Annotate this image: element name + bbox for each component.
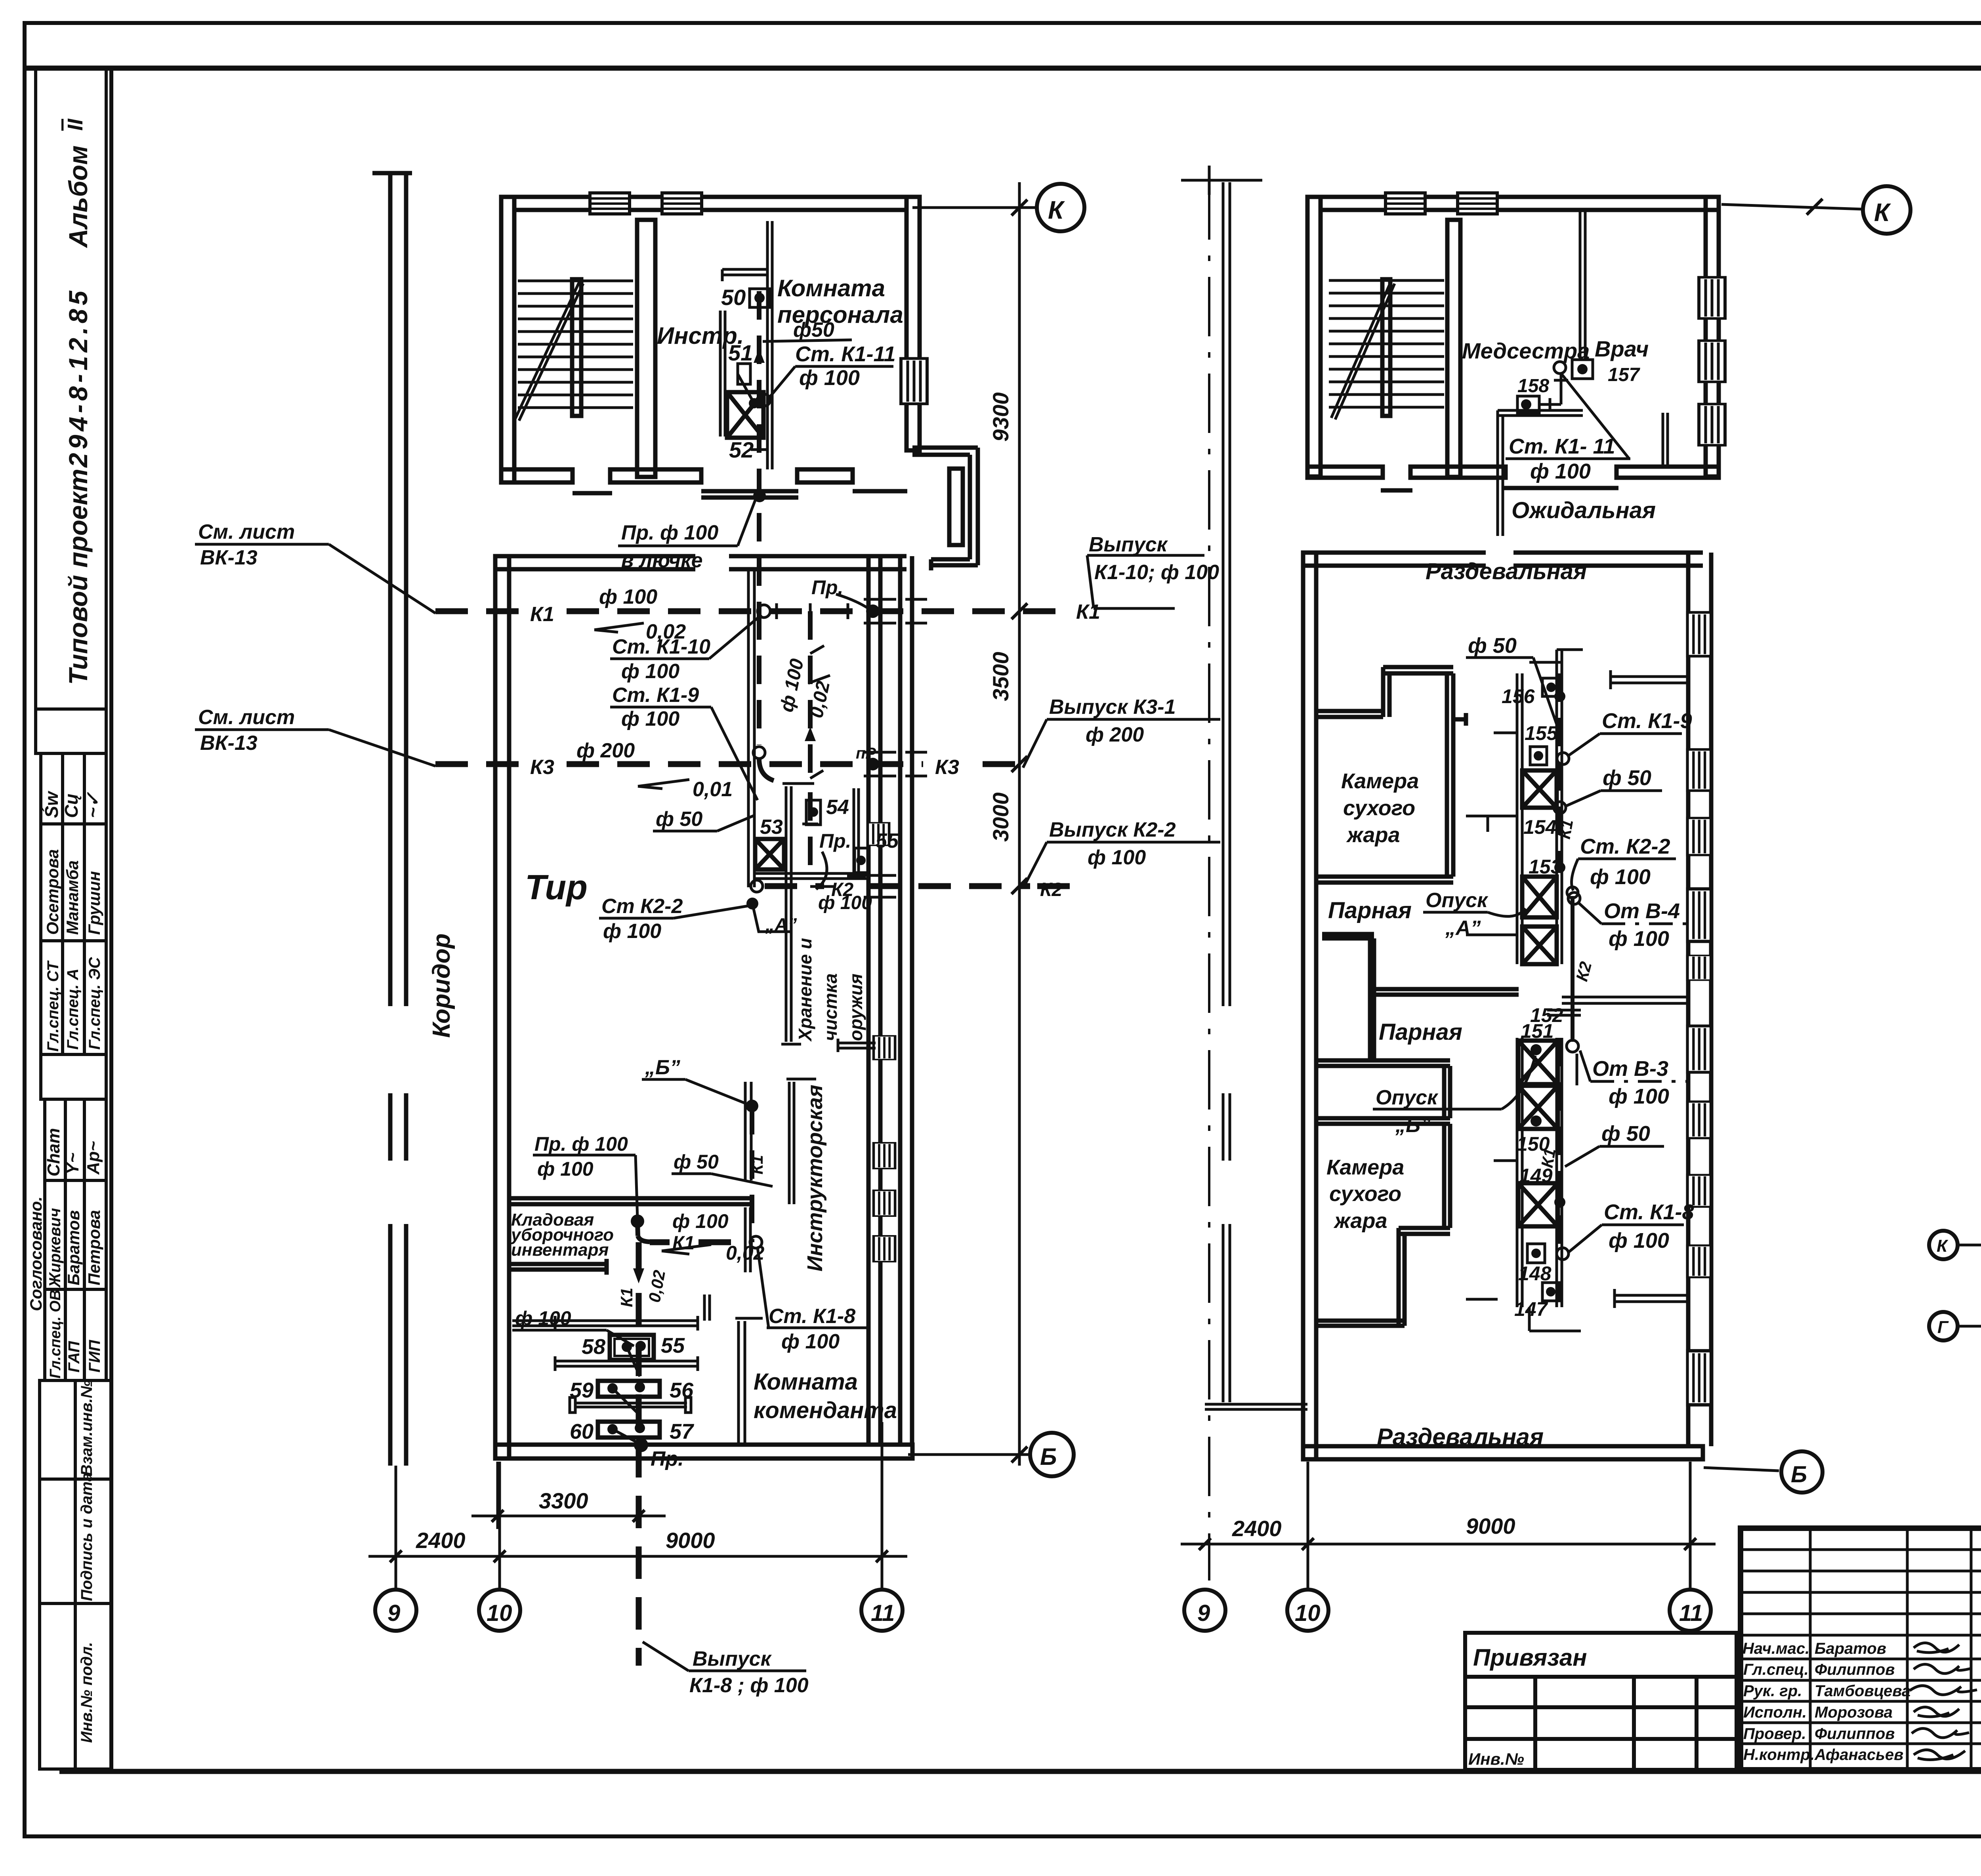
svg-text:153: 153 [1529,856,1562,878]
toilet area bottom [512,1316,763,1445]
stairwell [1447,220,1460,477]
outer walls [495,556,912,1458]
svg-text:Ожидальная: Ожидальная [1512,498,1656,523]
svg-text:Ст. К1-9: Ст. К1-9 [1602,709,1692,733]
svg-text:Опуск: Опуск [1376,1086,1439,1109]
svg-text:Камера: Камера [1341,769,1419,793]
svg-text:9300: 9300 [988,392,1013,442]
svg-text:Медсестра: Медсестра [1462,338,1590,363]
svg-text:Пр. ф 100: Пр. ф 100 [534,1133,628,1155]
right interior wall + exterior wall [868,556,912,1445]
svg-text:ф 50: ф 50 [1601,1122,1650,1146]
svg-text:См. лист: См. лист [198,520,295,543]
svg-text:ГИП: ГИП [86,1340,103,1373]
svg-text:II: II [63,118,87,131]
svg-text:ф 100: ф 100 [799,366,860,390]
svg-text:Исполн.: Исполн. [1743,1704,1807,1721]
svg-text:Раздевальная: Раздевальная [1426,559,1587,584]
svg-text:Ст. К1-8: Ст. К1-8 [1604,1200,1694,1224]
leader lines [1958,1206,1981,1438]
B axis bottom [908,1453,1030,1456]
svg-text:Św: Św [41,790,62,818]
svg-text:Парная: Парная [1328,898,1412,923]
svg-text:54: 54 [826,796,849,819]
svg-text:К2: К2 [1040,879,1063,900]
svg-text:Камера: Камера [1326,1155,1404,1179]
svg-text:9: 9 [387,1600,400,1626]
connection dots/circles [1554,691,1565,702]
svg-text:Рук. гр.: Рук. гр. [1743,1682,1802,1700]
svg-text:Ст К2-2: Ст К2-2 [601,895,683,918]
svg-text:60: 60 [570,1420,594,1443]
stairs [515,281,633,421]
svg-text:Подпись и дата: Подпись и дата [78,1473,95,1601]
svg-text:51: 51 [728,340,753,365]
svg-text:Привязан: Привязан [1473,1644,1587,1671]
svg-text:294-8-12.85: 294-8-12.85 [63,287,93,468]
door stubs inside [1466,662,1581,1299]
svg-text:156: 156 [1502,685,1535,707]
divider above toilets [704,1207,750,1321]
branch to K3 [757,611,761,745]
svg-text:пР: пР [856,745,876,762]
inner frame bottom [59,1769,1981,1774]
right wall niches [1699,277,1725,318]
svg-text:ф 100: ф 100 [621,707,679,730]
svg-text:См. лист: См. лист [198,706,295,729]
approval table (rotated) upper [36,709,106,1054]
svg-text:57: 57 [670,1420,695,1443]
corridor wall [1205,182,1307,1409]
svg-text:Филиппов: Филиппов [1815,1725,1895,1743]
standard attribute column [40,1380,111,1769]
svg-text:ф50: ф50 [793,318,834,341]
svg-text:56: 56 [670,1378,694,1402]
svg-text:59: 59 [570,1378,594,1402]
svg-text:ф 50: ф 50 [1603,766,1651,790]
title text box [36,68,106,709]
svg-text:Раздевальная: Раздевальная [1377,1424,1544,1450]
svg-text:Н.контр.: Н.контр. [1743,1746,1815,1764]
shaft column [1517,650,1583,1331]
svg-text:Гл.спец.: Гл.спец. [1743,1661,1809,1678]
svg-text:Пр.: Пр. [651,1447,684,1470]
svg-text:К1: К1 [617,1288,636,1307]
Кладовая storeroom [509,1198,751,1275]
svg-text:ф 100: ф 100 [781,1330,840,1353]
svg-text:„Б”: „Б” [645,1056,680,1079]
svg-text:Ст. К1-11: Ст. К1-11 [795,342,896,366]
svg-text:154: 154 [1523,816,1556,838]
riser branch vertical (54/55) [808,611,813,776]
left signature strip grid [1741,1528,1981,1770]
svg-text:Тир: Тир [525,867,588,907]
svg-text:~✓: ~✓ [82,792,103,818]
svg-text:149: 149 [1519,1165,1553,1187]
niche on right wall [901,358,927,404]
svg-text:Баратов: Баратов [64,1210,83,1285]
svg-text:Гл.спец. А: Гл.спец. А [64,969,82,1050]
svg-text:Типовой проект: Типовой проект [63,469,93,685]
axis 9 line [1208,180,1210,1580]
bottom wall [1307,467,1719,490]
corridor wall (axis 9-10) [372,173,412,1466]
svg-text:Ст. К1- 11: Ст. К1- 11 [1509,435,1615,458]
svg-text:58: 58 [582,1335,605,1359]
svg-text:ф 100: ф 100 [1609,927,1669,951]
dims [1181,1543,1716,1546]
svg-text:10: 10 [1295,1600,1321,1626]
svg-text:10: 10 [487,1600,512,1626]
svg-text:147: 147 [1514,1298,1548,1320]
fixtures [1572,360,1593,379]
svg-text:Филиппов: Филиппов [1815,1661,1895,1678]
svg-text:От В-4: От В-4 [1604,899,1680,923]
svg-text:Б: Б [1040,1443,1057,1470]
svg-text:сухого: сухого [1329,1182,1401,1206]
svg-text:ф 100: ф 100 [603,920,661,943]
svg-text:К3: К3 [935,756,959,779]
K1 main line [435,608,523,614]
svg-text:сухого: сухого [1343,796,1415,820]
left rows: role/name [1742,1640,1910,1764]
svg-text:ф 200: ф 200 [576,739,635,762]
svg-text:ф 100: ф 100 [537,1158,594,1180]
svg-text:Инструкторская: Инструкторская [803,1085,827,1272]
facade piers [874,1036,895,1060]
mid fixtures 53/54/55 [781,784,876,1052]
svg-text:К1-10; ф 100: К1-10; ф 100 [1094,561,1219,584]
svg-text:Провер.: Провер. [1743,1725,1806,1743]
svg-text:К1: К1 [530,603,554,626]
svg-text:К1: К1 [748,1155,766,1174]
dots on K1/K3 at wall [866,604,880,618]
fixtures room (Инстр.) [720,269,767,437]
svg-text:жара: жара [1333,1209,1387,1233]
main outline [1741,1528,1981,1770]
sink 51 [738,364,750,384]
small fixtures [1542,678,1560,696]
svg-text:9: 9 [1197,1600,1210,1626]
svg-text:К1: К1 [672,1233,695,1254]
bay at right [912,448,978,570]
svg-text:ф 100: ф 100 [621,660,679,683]
svg-text:От В-3: От В-3 [1592,1057,1668,1081]
svg-text:коменданта: коменданта [754,1397,897,1423]
small crosses on lines [777,603,848,887]
svg-text:Пр. ф 100: Пр. ф 100 [621,521,718,544]
svg-text:3300: 3300 [539,1488,588,1513]
svg-text:К: К [1937,1236,1949,1256]
svg-text:ф 100: ф 100 [515,1307,571,1329]
svg-text:Взам.инв.№: Взам.инв.№ [78,1380,95,1476]
shaft x-box [727,392,763,438]
svg-text:2400: 2400 [1232,1516,1282,1541]
B axis [1704,1468,1779,1471]
partitions to facade [1562,670,1687,1308]
squiggle signatures [1910,1643,1977,1760]
svg-text:Cham: Cham [44,1128,63,1176]
dim 3300 [496,1462,499,1529]
svg-text:ф 100: ф 100 [818,892,872,913]
svg-text:Грушин: Грушин [85,871,103,935]
svg-text:К1: К1 [1555,818,1577,841]
svg-text:9000: 9000 [1466,1514,1515,1539]
svg-text:Баратов: Баратов [1815,1640,1886,1657]
urinal boxes [598,1335,660,1438]
svg-text:50: 50 [721,285,746,310]
vertical dim line [1018,182,1021,1466]
svg-text:ф 200: ф 200 [1086,723,1144,746]
svg-text:К3: К3 [530,756,554,779]
svg-text:Осетрова: Осетрова [43,849,62,935]
wall window hatches [590,193,630,214]
svg-text:9000: 9000 [666,1528,715,1553]
svg-text:Афанасьев: Афанасьев [1814,1746,1903,1764]
riser line K1 dashed [1557,673,1562,867]
svg-text:ф 50: ф 50 [656,808,702,831]
svg-text:Соглосовано.: Соглосовано. [27,1196,45,1311]
svg-text:жара: жара [1346,823,1400,847]
svg-text:Гл.спец. СТ: Гл.спец. СТ [44,960,62,1052]
svg-text:К: К [1048,196,1065,224]
dim 2400 / 9000 [368,1555,907,1558]
svg-text:К1: К1 [1076,601,1100,623]
svg-text:3500: 3500 [988,652,1013,701]
svg-text:ф 100: ф 100 [1088,846,1146,869]
left annex (Привязан) [1465,1633,1737,1770]
svg-text:ф 100: ф 100 [1609,1229,1669,1253]
facade hatched band [1687,612,1711,656]
svg-text:148: 148 [1518,1262,1552,1285]
svg-text:55: 55 [661,1334,685,1357]
stair core right wall [637,220,655,477]
svg-text:11: 11 [871,1600,895,1626]
svg-text:Ст. К2-2: Ст. К2-2 [1580,835,1670,858]
Инструкторская partition [786,1079,816,1204]
axis extensions + circles [395,1466,397,1590]
svg-text:Выпуск: Выпуск [693,1647,772,1670]
K2 line [765,883,824,889]
thin wall of staff room [767,221,772,469]
K3 line [435,761,523,767]
svg-text:Парная: Парная [1379,1019,1462,1045]
lower sauna suite [1316,1060,1450,1326]
svg-text:Пр.: Пр. [819,830,851,852]
St K2-2 dot [751,880,763,892]
svg-text:оружия: оружия [845,974,866,1041]
svg-text:Комната: Комната [777,275,885,301]
bottom wall segments [501,469,907,498]
svg-text:Нач.мас.: Нач.мас. [1742,1640,1809,1657]
svg-text:Врач: Врач [1595,336,1649,361]
svg-text:ф 100: ф 100 [1590,865,1651,889]
svg-text:Комната: Комната [754,1369,858,1395]
svg-text:Морозова: Морозова [1815,1704,1893,1721]
svg-text:Опуск: Опуск [1426,889,1489,912]
svg-text:Тамбовцева: Тамбовцева [1815,1682,1910,1700]
svg-text:53: 53 [760,816,783,839]
svg-text:Коридор: Коридор [428,934,455,1038]
svg-text:150: 150 [1517,1133,1550,1155]
svg-text:3000: 3000 [988,792,1013,842]
svg-text:ВК-13: ВК-13 [200,732,258,755]
svg-text:2400: 2400 [416,1528,466,1553]
room partition lines bottom of shaft area [755,873,868,879]
svg-text:52: 52 [729,437,754,462]
svg-text:ВК-13: ВК-13 [200,546,258,569]
svg-text:157: 157 [1608,364,1640,385]
svg-text:Гл.спец. ОВ: Гл.спец. ОВ [47,1290,64,1378]
svg-text:Ст. К1-8: Ст. К1-8 [769,1305,855,1328]
svg-text:Инв.№: Инв.№ [1468,1750,1524,1768]
svg-text:0,01: 0,01 [693,778,733,801]
svg-text:Ст. К1-10: Ст. К1-10 [612,635,710,658]
svg-text:Инв.№ подл.: Инв.№ подл. [78,1642,95,1743]
svg-text:151: 151 [1521,1020,1554,1042]
svg-text:ф 100: ф 100 [672,1210,729,1232]
svg-text:11: 11 [1679,1600,1703,1626]
svg-text:Y~: Y~ [63,1153,82,1174]
svg-text:155: 155 [1525,722,1558,744]
svg-text:ф 100: ф 100 [1530,459,1591,483]
svg-text:К: К [1874,198,1891,227]
svg-text:Петрова: Петрова [85,1210,103,1285]
x-boxes upper [1522,770,1557,964]
svg-text:„Б”: „Б” [1395,1114,1431,1137]
riser K1 vertical dashed [757,291,761,611]
medical partitions [1498,210,1668,536]
svg-text:Гл.спец. ЭС: Гл.спец. ЭС [86,957,103,1050]
x-boxes lower [1518,1041,1558,1226]
exit run down [636,1242,642,1666]
svg-text:Выпуск К3-1: Выпуск К3-1 [1049,696,1176,719]
svg-text:55: 55 [876,829,899,852]
lower K1 run [631,1214,644,1228]
svg-text:Г: Г [1937,1317,1949,1337]
circles [1929,1192,1981,1466]
svg-text:Хранение и: Хранение и [795,938,815,1042]
vertical riser from top block [758,605,770,618]
svg-text:ф 100: ф 100 [599,585,657,608]
svg-text:ф 50: ф 50 [1468,634,1517,658]
top band bottom line [25,66,1981,71]
svg-text:Манамба: Манамба [63,860,82,935]
svg-text:ГАП: ГАП [65,1341,83,1373]
svg-text:Выпуск К2-2: Выпуск К2-2 [1049,818,1176,841]
K axis top [912,206,1036,209]
svg-text:Б: Б [1791,1462,1807,1487]
services wall mid [745,569,754,1180]
outer walls [501,197,920,482]
svg-text:ф 100: ф 100 [1609,1085,1669,1108]
K axis [1721,204,1862,209]
svg-text:Альбом: Альбом [63,145,93,248]
svg-text:Ap~: Ap~ [84,1141,103,1175]
svg-text:Ċų: Ċų [61,794,82,818]
inner frame left [109,68,113,1771]
outer walls [1303,553,1711,1459]
svg-text:Ст. К1-9: Ст. К1-9 [612,684,699,707]
svg-text:158: 158 [1517,376,1549,397]
svg-text:К1-8 ; ф 100: К1-8 ; ф 100 [689,1674,809,1697]
svg-text:инвентаря: инвентаря [511,1240,609,1260]
upper sauna suite [1316,667,1519,1061]
svg-text:Жиркевич: Жиркевич [46,1208,64,1288]
svg-text:ф 50: ф 50 [674,1151,719,1173]
svg-text:чистка: чистка [820,973,841,1041]
svg-text:Выпуск: Выпуск [1089,533,1168,556]
approval table lower (ГИП/ГАП) [41,1054,106,1380]
sink 50 [750,289,769,307]
